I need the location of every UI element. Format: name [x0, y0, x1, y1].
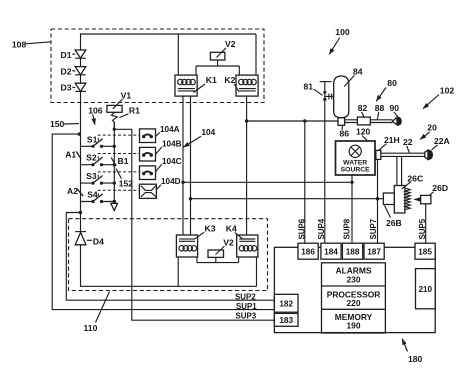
svg-text:104: 104 [202, 128, 216, 137]
wire bus y199 [191, 198, 384, 200]
svg-text:D4: D4 [93, 237, 104, 247]
junction rail to bus y199 [189, 197, 192, 200]
junction S3 row [113, 181, 116, 184]
svg-text:V2: V2 [223, 237, 234, 247]
sensor 26D [414, 183, 448, 204]
actuator 26C [394, 173, 423, 213]
junction SUP7 tap [376, 197, 379, 200]
svg-text:182: 182 [279, 299, 293, 308]
svg-text:K1: K1 [206, 75, 217, 85]
wire drop to K2 [255, 34, 257, 75]
linkage dashed S1 [98, 135, 139, 141]
alarm device 104B [140, 140, 182, 162]
svg-text:SOURCE: SOURCE [341, 167, 371, 174]
pipe 22 [381, 137, 425, 156]
svg-text:188: 188 [346, 248, 360, 257]
label 104 [183, 128, 215, 147]
relay V2 bottom [208, 237, 234, 257]
svg-text:SUP2: SUP2 [235, 293, 256, 302]
diode D1 [61, 50, 86, 60]
svg-text:104C: 104C [162, 157, 182, 166]
junction SUP6 tap [303, 119, 306, 122]
module box 210 [416, 269, 436, 309]
linkage dashed S2 [98, 154, 139, 160]
relay coil K2 [224, 75, 258, 96]
svg-text:90: 90 [390, 103, 400, 113]
wire SUP4 [324, 99, 326, 243]
svg-text:81: 81 [304, 82, 314, 92]
wire SUP5 [425, 204, 427, 243]
svg-text:187: 187 [367, 248, 381, 257]
wire SUP3 wrap [114, 129, 274, 320]
svg-text:S1: S1 [87, 134, 98, 144]
svg-text:K3: K3 [205, 224, 216, 234]
svg-text:150: 150 [50, 119, 65, 129]
svg-text:B1: B1 [118, 156, 129, 166]
switch S4 [81, 190, 115, 204]
junction S4 row [113, 200, 116, 203]
wire K1 to K3 left [182, 96, 184, 235]
svg-text:110: 110 [84, 323, 98, 333]
label 102 [423, 85, 454, 108]
node A1 [65, 150, 81, 160]
port 26B [383, 193, 401, 228]
svg-text:K2: K2 [224, 75, 235, 85]
output box 183 [274, 313, 298, 326]
node B1 [111, 156, 129, 166]
wire [80, 75, 82, 83]
label 108 [12, 40, 51, 50]
nozzle 22A [425, 136, 450, 160]
input box 186 [298, 243, 318, 259]
node A2 [67, 186, 83, 196]
svg-text:184: 184 [324, 248, 338, 257]
linkage dashed S3 [98, 172, 139, 178]
svg-text:S3: S3 [86, 171, 97, 181]
wire K2 to K4 [246, 96, 248, 235]
linkage dashed S4 [98, 190, 139, 196]
svg-text:82: 82 [358, 103, 368, 113]
wire K1 to K3 right [190, 96, 192, 235]
svg-text:SUP8: SUP8 [343, 218, 352, 239]
switch S1 [81, 134, 115, 148]
svg-text:102: 102 [440, 85, 455, 95]
module stack ALARMS PROCESSOR MEMORY [322, 263, 386, 333]
port 21H [376, 135, 400, 159]
svg-text:V2: V2 [225, 39, 236, 49]
svg-text:80: 80 [387, 78, 397, 88]
svg-text:WATER: WATER [343, 159, 367, 166]
junction rail to bus y182 [181, 181, 184, 184]
svg-text:S4: S4 [87, 190, 98, 200]
switch S2 [81, 153, 115, 167]
svg-text:26B: 26B [386, 218, 402, 228]
relay coil K3 [176, 224, 215, 257]
label 110 [84, 292, 110, 334]
wire SUP8 [351, 175, 353, 243]
label 152 [116, 169, 133, 189]
label 88 [375, 103, 385, 120]
input box 188 [342, 243, 362, 259]
resistor R1 [111, 105, 140, 129]
alarm device 104A [140, 125, 180, 142]
svg-text:D1: D1 [61, 50, 72, 60]
controller box 180 [274, 247, 435, 332]
tank 84 [334, 67, 363, 118]
svg-text:R1: R1 [129, 105, 140, 115]
svg-text:84: 84 [353, 67, 363, 77]
valve 81 [304, 82, 334, 102]
svg-text:210: 210 [418, 285, 432, 294]
svg-text:120: 120 [356, 126, 371, 136]
label 80 [376, 78, 397, 101]
input box 185 [415, 243, 435, 259]
wire V2 wye to K1 K2 [196, 60, 239, 75]
valve 82 [357, 103, 370, 125]
water source 120 [336, 126, 376, 175]
svg-text:21H: 21H [384, 135, 400, 145]
input box 184 [321, 243, 341, 259]
svg-text:152: 152 [119, 178, 134, 188]
wire bus y121 [247, 120, 338, 122]
svg-text:106: 106 [88, 105, 103, 115]
dashed box 110 [69, 219, 268, 291]
junction SUP2 tap [79, 211, 82, 214]
relay coil K4 [226, 224, 258, 257]
svg-text:22A: 22A [434, 136, 450, 146]
output box 182 [274, 294, 298, 312]
diode D4 [75, 232, 104, 247]
svg-text:190: 190 [347, 321, 361, 331]
wire K3 bottom drop [177, 257, 179, 286]
pipe branch to 26C [397, 156, 402, 185]
label 106 [88, 105, 103, 124]
wire SUP2 wrap [66, 213, 274, 301]
svg-text:183: 183 [279, 316, 293, 325]
svg-text:26C: 26C [407, 173, 423, 183]
fitting 86 [338, 118, 349, 139]
svg-text:104A: 104A [160, 125, 180, 134]
wire SUP6 [304, 121, 306, 243]
svg-text:108: 108 [12, 40, 27, 50]
wire bus y182 [183, 181, 352, 183]
svg-text:SUP4: SUP4 [317, 218, 326, 239]
junction R1 output node [113, 128, 116, 131]
wire top bus [81, 34, 257, 50]
junction S2 row [113, 163, 116, 166]
svg-text:20: 20 [427, 123, 437, 133]
junction SUP1 tap [78, 132, 81, 135]
wire SUP7 [377, 159, 379, 243]
wire left rail [80, 91, 82, 231]
dashed box 108 [51, 29, 264, 103]
label 150 [50, 119, 79, 129]
label 180 [402, 339, 422, 364]
alarm device 104D [139, 177, 180, 198]
wire V2b wye to K3 K4 [197, 257, 239, 263]
junction S1 row [113, 145, 116, 148]
svg-text:SUP1: SUP1 [236, 302, 257, 311]
svg-text:100: 100 [335, 27, 350, 37]
svg-text:186: 186 [301, 248, 315, 257]
svg-text:SUP5: SUP5 [418, 218, 427, 239]
svg-text:88: 88 [375, 103, 385, 113]
svg-text:A2: A2 [67, 186, 78, 196]
relay V1 [107, 90, 131, 112]
svg-text:SUP7: SUP7 [369, 218, 378, 239]
alarm device 104C [140, 157, 182, 180]
wire K4 bottom rise [256, 257, 258, 286]
pipe 88 [345, 120, 393, 123]
svg-text:S2: S2 [86, 153, 97, 163]
svg-text:220: 220 [347, 298, 361, 308]
junction K2 wire to bus [245, 119, 248, 122]
svg-text:230: 230 [347, 274, 361, 284]
svg-text:22: 22 [403, 137, 413, 147]
switch S3 [81, 171, 115, 185]
svg-text:185: 185 [418, 248, 432, 257]
diode D2 [61, 66, 86, 76]
diode D3 [61, 83, 86, 93]
svg-text:104D: 104D [161, 177, 181, 186]
wire mid rail [113, 122, 115, 203]
label 100 [329, 27, 350, 55]
svg-text:SUP3: SUP3 [236, 312, 257, 321]
svg-text:26D: 26D [432, 183, 448, 193]
svg-text:D2: D2 [61, 66, 72, 76]
nozzle 90 [390, 103, 402, 126]
relay coil K1 [175, 75, 217, 96]
svg-text:A1: A1 [65, 150, 76, 160]
label 20 [420, 123, 437, 140]
svg-text:SUP6: SUP6 [297, 218, 306, 239]
arrow end of mid rail [111, 203, 118, 210]
junction SUP8 tap [350, 181, 353, 184]
wire D4 down and across [81, 245, 257, 286]
wire SUP1 wrap [52, 134, 274, 310]
wire drop to K1 [177, 34, 179, 75]
relay V2 top [210, 39, 235, 60]
svg-text:180: 180 [408, 354, 423, 364]
svg-text:104B: 104B [162, 140, 182, 149]
svg-text:86: 86 [340, 129, 350, 139]
input box 187 [364, 243, 384, 259]
svg-text:D3: D3 [61, 83, 72, 93]
wire [80, 58, 82, 66]
